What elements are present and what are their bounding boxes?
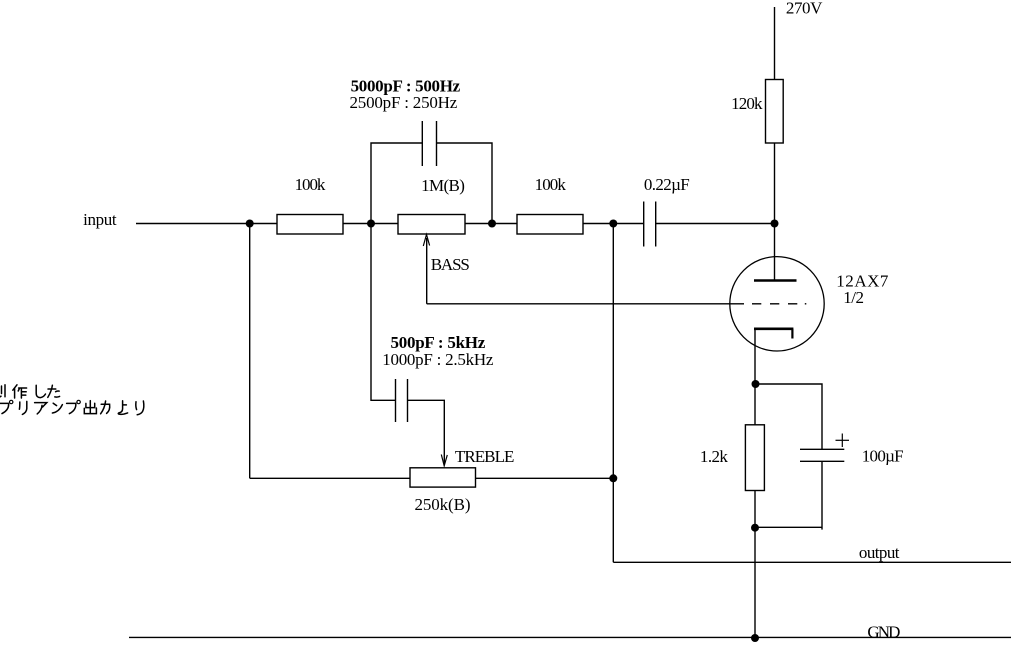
wire R3 to plate node bbox=[774, 143, 776, 224]
tube plate bar bbox=[754, 279, 797, 282]
tube grid dashed bbox=[752, 303, 797, 305]
tube U1 12AX7 envelope bbox=[730, 257, 824, 351]
wiper arrow BASS bbox=[426, 238, 428, 304]
capacitor C1 plates bbox=[421, 121, 423, 166]
tube plate lead bbox=[774, 224, 776, 281]
capacitor C4 plates bbox=[395, 379, 397, 422]
wire output line bbox=[613, 561, 1011, 563]
svg-text:100µF: 100µF bbox=[862, 447, 904, 466]
svg-text:0.22µF: 0.22µF bbox=[644, 175, 690, 194]
capacitor C2 0.22uF plates bbox=[643, 202, 645, 247]
node treble output junction bbox=[609, 474, 617, 482]
potentiometer VR1 1M(B) bbox=[398, 215, 465, 235]
resistor R3 120k bbox=[766, 80, 784, 144]
tube cathode hook bbox=[791, 329, 793, 339]
svg-text:250k(B): 250k(B) bbox=[415, 495, 471, 514]
wire output branch vertical bbox=[612, 224, 614, 563]
capacitor C1 bracket right bbox=[437, 143, 493, 224]
svg-text:500pF : 5kHz: 500pF : 5kHz bbox=[391, 333, 486, 352]
svg-text:100k: 100k bbox=[535, 175, 567, 194]
svg-text:BASS: BASS bbox=[431, 255, 470, 274]
svg-text:1M(B): 1M(B) bbox=[421, 176, 465, 195]
wire GND rail bbox=[129, 636, 1011, 638]
node junction left of pot bbox=[367, 220, 375, 228]
svg-text:GND: GND bbox=[867, 622, 900, 641]
svg-text:100k: 100k bbox=[295, 175, 326, 194]
svg-text:1/2: 1/2 bbox=[843, 288, 864, 307]
capacitor C3 polarity plus bbox=[836, 439, 850, 441]
wire C3 bottom to node bbox=[821, 461, 823, 529]
tube cathode bar bbox=[754, 327, 793, 330]
wire R4 bottom bbox=[754, 491, 756, 639]
svg-text:1000pF : 2.5kHz: 1000pF : 2.5kHz bbox=[382, 350, 494, 369]
svg-text:output: output bbox=[859, 543, 900, 562]
wire treble pot right to output branch bbox=[476, 477, 614, 479]
note japanese annotation line2 bbox=[0, 400, 144, 415]
node input junction bbox=[246, 220, 254, 228]
resistor R2 100k bbox=[517, 215, 583, 235]
wire pot to R2 bbox=[465, 223, 517, 225]
node below R4 bbox=[751, 524, 759, 532]
capacitor C1 5000pF bracket left bbox=[371, 143, 422, 224]
node GND junction bbox=[751, 634, 759, 642]
wire C2 to plate node bbox=[656, 223, 775, 225]
svg-text:2500pF : 250Hz: 2500pF : 250Hz bbox=[350, 93, 458, 112]
svg-text:270V: 270V bbox=[786, 0, 823, 17]
wire C4 to treble wiper bbox=[408, 400, 445, 463]
wire cathode node to C3 top bbox=[756, 384, 823, 449]
svg-text:1.2k: 1.2k bbox=[700, 447, 729, 466]
wire input to first junction bbox=[136, 223, 277, 225]
svg-text:input: input bbox=[83, 210, 117, 229]
node cathode junction bbox=[752, 380, 760, 388]
wire to treble pot left bbox=[250, 477, 410, 479]
wiper arrow TREBLE bbox=[441, 455, 447, 466]
capacitor C4 500pF branch wire bbox=[371, 224, 395, 401]
svg-text:TREBLE: TREBLE bbox=[455, 447, 515, 466]
wire 270V supply bbox=[774, 7, 776, 80]
wire input branch down bbox=[249, 224, 251, 479]
wire bass wiper to tube grid bbox=[427, 303, 744, 305]
resistor R1 100k bbox=[277, 215, 343, 235]
wire R1 to pot bbox=[343, 223, 398, 225]
tube cathode lead bbox=[754, 329, 756, 425]
svg-text:120k: 120k bbox=[731, 94, 763, 113]
note japanese annotation line1 bbox=[0, 385, 60, 398]
node plate junction bbox=[771, 220, 779, 228]
capacitor C3 100uF plates bbox=[800, 448, 844, 450]
potentiometer VR2 250k(B) bbox=[410, 468, 476, 487]
node junction right of pot bbox=[488, 220, 496, 228]
wire R2 to C2 bbox=[583, 223, 644, 225]
resistor R4 1.2k bbox=[745, 425, 764, 491]
node junction output branch bbox=[609, 220, 617, 228]
